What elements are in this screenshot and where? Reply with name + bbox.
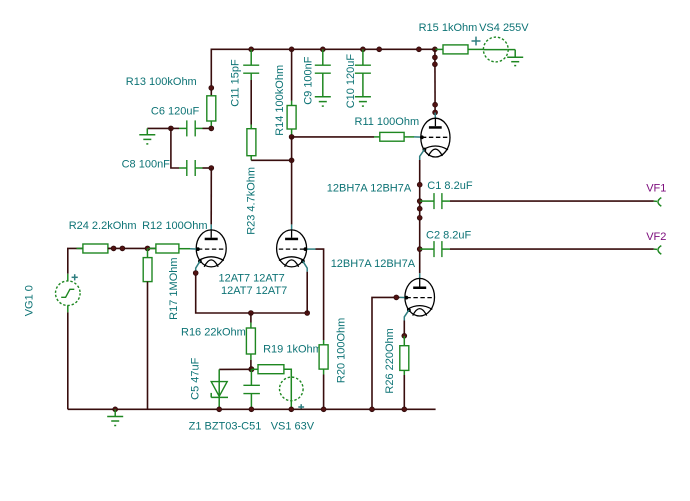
junction R14 / R11 wire [289, 135, 294, 140]
wire ground stub left [147, 127, 171, 129]
svg-text:C5 47uF: C5 47uF [190, 357, 202, 399]
zener diode Z1 [211, 369, 228, 409]
wire C6 right to node [203, 127, 212, 129]
resistor R15 [435, 45, 484, 54]
junction top bus / C9 [320, 47, 325, 52]
ground at C6/C8 [139, 128, 155, 144]
signal source VG1 [56, 274, 81, 313]
wire R16 to node [250, 360, 252, 369]
terminal VF2 [654, 246, 662, 255]
svg-text:12BH7A 12BH7A: 12BH7A 12BH7A [327, 183, 412, 195]
tube U2 12BH7A lower [400, 273, 435, 320]
voltage source VS4 [472, 37, 516, 62]
svg-text:R17 1MOhm: R17 1MOhm [168, 257, 180, 319]
wire tube V2 cathode down [196, 272, 308, 313]
junction R16 tap [249, 311, 254, 316]
junction top bus / C10 [361, 47, 366, 52]
junction plate wire seg 3 [433, 102, 438, 107]
tube V2 12AT7 left [190, 224, 226, 271]
voltage source VS1 [280, 377, 305, 410]
svg-text:R23 4.7kOhm: R23 4.7kOhm [246, 167, 258, 235]
wire tube V3 grid to R20 [316, 249, 324, 340]
junction grid wire seg [394, 295, 399, 300]
junction R26 / bus [402, 407, 407, 412]
svg-text:R24 2.2kOhm: R24 2.2kOhm [69, 220, 137, 232]
junction top bus segment 2 [417, 47, 422, 52]
resistor R20 [319, 340, 328, 375]
svg-text:12AT7 12AT7: 12AT7 12AT7 [219, 273, 285, 285]
wire R17 to bottom bus [147, 282, 149, 410]
junction R24 wire a [111, 246, 116, 251]
junction VS1 / bus [289, 407, 294, 412]
svg-text:C8 100nF: C8 100nF [122, 159, 171, 171]
junction Z1 / bus [217, 407, 222, 412]
wire bus to tube V1 plate [434, 49, 436, 112]
svg-text:R16 22kOhm: R16 22kOhm [181, 327, 246, 339]
junction R20 / bus [321, 407, 326, 412]
junction C5 / bus [249, 407, 254, 412]
junction top bus segment [377, 47, 382, 52]
svg-text:VG1 0: VG1 0 [23, 285, 35, 316]
junction plate wire seg 4 [433, 110, 438, 115]
junction cathode wire seg 2 [417, 206, 422, 211]
wire R14 node to R11 [292, 136, 374, 138]
svg-text:VF1: VF1 [646, 183, 666, 195]
capacitor C8 [179, 160, 203, 176]
wire top bus B+ [211, 49, 435, 88]
svg-text:R11 100Ohm: R11 100Ohm [355, 116, 420, 128]
wire C2 to VF2 [450, 248, 654, 250]
junction cathode wire V2 [193, 271, 198, 276]
junction above R13 [209, 86, 214, 91]
wire tube V3 plate from R23 node [291, 160, 293, 224]
resistor R23 [247, 125, 256, 161]
resistor R26 [400, 336, 409, 375]
capacitor C2 [420, 241, 450, 257]
wire R23 to R14 node [251, 159, 291, 161]
wire tube V3 cathode down [306, 272, 308, 313]
junction C6/C8/ground [169, 126, 174, 131]
resistor R13 [207, 96, 216, 129]
junction C1 tap [417, 199, 422, 204]
svg-text:12AT7 12AT7: 12AT7 12AT7 [221, 285, 287, 297]
wire R26 to bottom bus [403, 375, 405, 409]
wire VG1 top to R24 [68, 248, 83, 273]
svg-text:VS1 63V: VS1 63V [271, 421, 315, 433]
ground at bottom bus [107, 409, 123, 425]
svg-text:VS4 255V: VS4 255V [479, 22, 529, 34]
junction plate wire seg 1 [433, 55, 438, 60]
capacitor C11 [243, 49, 259, 80]
junction ground tap [113, 407, 118, 412]
resistor R19 [251, 365, 291, 378]
junction C2 tap [417, 247, 422, 252]
svg-text:Z1 BZT03-C51: Z1 BZT03-C51 [189, 421, 262, 433]
ground at VS4 [507, 50, 523, 66]
wire C6 left to ground node [171, 127, 179, 129]
tube V3 12AT7 right [277, 224, 316, 271]
wire R20 to bottom bus [323, 375, 325, 410]
wire tube V2 plate from C8 node [210, 168, 212, 224]
resistor R11 [374, 132, 414, 141]
wire VG1 bottom to bus [67, 312, 69, 409]
junction above R26 [402, 333, 407, 338]
svg-text:C11 15pF: C11 15pF [230, 59, 242, 107]
ground at C10 [355, 97, 371, 106]
svg-text:C6 120uF: C6 120uF [151, 106, 200, 118]
svg-text:R26 220Ohm: R26 220Ohm [384, 328, 396, 393]
junction C8 / plate wire [209, 166, 214, 171]
resistor R17 [143, 248, 152, 281]
svg-text:R19 1kOhm: R19 1kOhm [263, 343, 322, 355]
wire R14 node down to R23 node [291, 137, 293, 160]
wire R24 to R12 [108, 247, 156, 249]
wire bottom bus [68, 408, 436, 410]
svg-text:R14 100kOhm: R14 100kOhm [274, 65, 286, 136]
junction plate wire seg 2 [433, 62, 438, 67]
svg-text:C2 8.2uF: C2 8.2uF [426, 230, 472, 242]
resistor R12 [149, 244, 191, 253]
capacitor C10 [355, 49, 371, 97]
junction top bus / C11 [249, 47, 254, 52]
wire C11 to R23 [250, 80, 252, 125]
wire C8 right to node [203, 167, 212, 169]
svg-text:R13 100kOhm: R13 100kOhm [126, 76, 197, 88]
junction cathode corner V3 [305, 311, 310, 316]
terminal VF1 [654, 198, 662, 207]
wire C1 to VF1 [450, 200, 654, 202]
svg-text:R20 100Ohm: R20 100Ohm [336, 318, 348, 383]
junction cathode wire seg [417, 182, 422, 187]
junction grid wire / bus [370, 407, 375, 412]
ground at C9 [315, 97, 331, 106]
capacitor C5 [243, 369, 260, 409]
svg-text:R15 1kOhm: R15 1kOhm [419, 22, 478, 34]
junction R17 tap [145, 246, 150, 251]
junction cathode wire seg 3 [417, 215, 422, 220]
svg-text:12BH7A 12BH7A: 12BH7A 12BH7A [331, 258, 416, 270]
junction top bus / R14 [289, 47, 294, 52]
junction R23 wire / tube V2 plate wire [289, 158, 294, 163]
svg-text:R12 100Ohm: R12 100Ohm [142, 220, 207, 232]
junction R16/R19/C5/Z1 node [249, 367, 254, 372]
resistor R24 [77, 244, 113, 253]
svg-text:C10 120uF: C10 120uF [345, 54, 357, 109]
wire C8 left up to ground node [171, 128, 179, 168]
wire R13 branch [210, 88, 212, 96]
wire tube V4 cathode to R26 [403, 321, 405, 336]
capacitor C6 [179, 120, 203, 136]
resistor R16 [246, 313, 255, 360]
wire tube V4 grid left [372, 297, 400, 409]
svg-text:C9 100nF: C9 100nF [303, 56, 315, 105]
junction R13 / C6 [209, 126, 214, 131]
tube U1 12BH7A upper [414, 112, 450, 160]
resistor R14 [287, 101, 296, 137]
svg-text:C1 8.2uF: C1 8.2uF [427, 180, 473, 192]
wire bus to R14 [291, 49, 293, 101]
wire tube V1 cathode down [419, 160, 421, 273]
junction R24 wire b [120, 246, 125, 251]
capacitor C1 [420, 193, 450, 209]
svg-text:VF2: VF2 [646, 231, 666, 243]
capacitor C9 [315, 49, 331, 97]
junction top bus / R15 / tube V1 plate [433, 47, 438, 52]
wire node to Z1 [219, 368, 251, 370]
